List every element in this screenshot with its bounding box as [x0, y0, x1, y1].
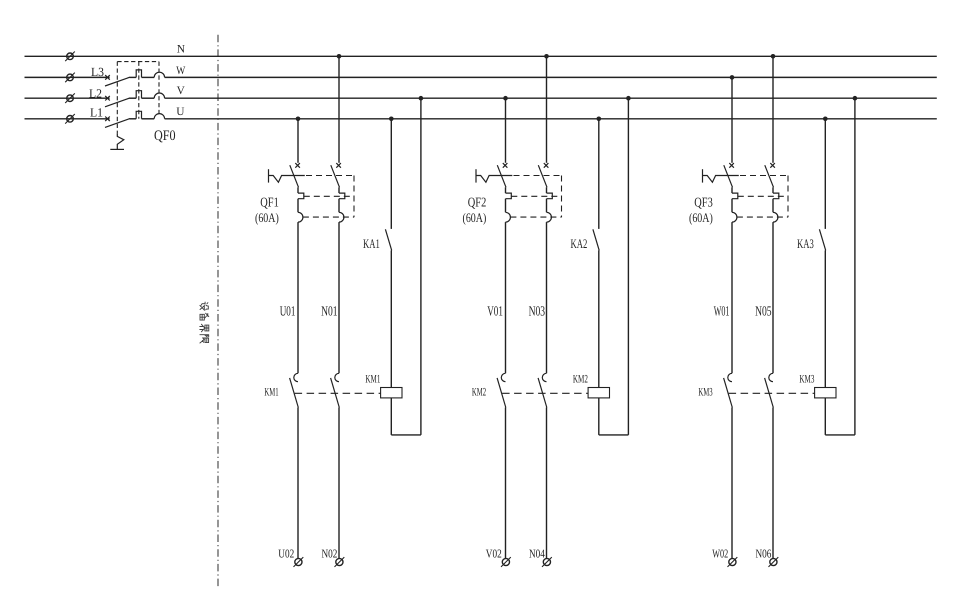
svg-text:U: U [176, 106, 185, 118]
svg-text:N06: N06 [756, 546, 772, 560]
svg-text:N02: N02 [322, 546, 338, 560]
svg-text:V: V [177, 85, 186, 97]
svg-text:N: N [177, 44, 186, 56]
svg-text:(60A): (60A) [255, 210, 279, 225]
svg-text:L3: L3 [91, 65, 104, 79]
svg-text:V02: V02 [486, 546, 502, 560]
svg-text:N04: N04 [529, 546, 545, 560]
svg-text:QF1: QF1 [260, 195, 279, 210]
svg-text:N01: N01 [321, 304, 338, 319]
svg-text:KM3: KM3 [799, 373, 814, 385]
svg-text:U02: U02 [278, 546, 294, 560]
svg-text:KM2: KM2 [472, 386, 486, 398]
svg-text:W01: W01 [714, 304, 730, 319]
svg-text:L2: L2 [89, 86, 102, 100]
svg-text:QF0: QF0 [154, 128, 176, 144]
svg-text:L1: L1 [90, 105, 103, 119]
svg-text:KM3: KM3 [698, 386, 712, 398]
svg-text:KM1: KM1 [264, 386, 278, 398]
svg-text:QF3: QF3 [694, 195, 713, 210]
svg-text:W02: W02 [712, 546, 728, 560]
svg-text:QF2: QF2 [468, 195, 487, 210]
svg-text:KA2: KA2 [571, 236, 588, 251]
svg-text:N05: N05 [755, 304, 772, 319]
svg-text:(60A): (60A) [463, 210, 487, 225]
svg-text:V01: V01 [487, 304, 503, 319]
svg-text:W: W [176, 65, 185, 77]
svg-text:KA3: KA3 [797, 236, 814, 251]
svg-text:KM2: KM2 [573, 373, 588, 385]
svg-text:U01: U01 [280, 304, 296, 319]
svg-text:KA1: KA1 [363, 236, 380, 251]
svg-text:N03: N03 [529, 304, 546, 319]
svg-text:(60A): (60A) [689, 210, 713, 225]
svg-text:KM1: KM1 [365, 373, 380, 385]
